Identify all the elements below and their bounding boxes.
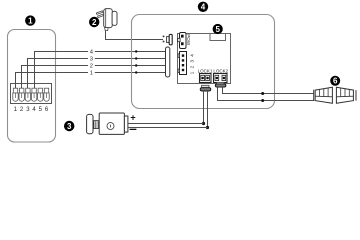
terminal 5 (38, 88, 43, 101)
wire 4: terminal 4 to connector pin 4 (35, 52, 89, 89)
svg-text:LOCK2: LOCK2 (213, 68, 228, 73)
LOCK2 wire to bolt lock top (223, 87, 314, 93)
svg-text:2: 2 (92, 18, 97, 27)
junction dot on bottom bolt wire (261, 99, 264, 102)
svg-text:2: 2 (90, 64, 93, 70)
svg-text:POW: POW (186, 34, 191, 46)
terminal 1 (13, 88, 18, 101)
wire 3: terminal 3 to connector pin 3 (28, 59, 89, 89)
svg-text:+: + (130, 112, 135, 122)
cable bundle plug J1 (166, 47, 170, 77)
wire 1: terminal 1 to connector pin 1 (16, 73, 89, 89)
electric strike lock 3 (87, 113, 128, 134)
svg-text:1: 1 (90, 71, 93, 77)
wire number labels 4 3 2 1 (90, 50, 94, 77)
wire 2: terminal 2 to connector pin 2 (22, 66, 89, 89)
svg-text:3: 3 (67, 122, 72, 131)
LOCK1 connector (200, 74, 212, 83)
electric bolt lock 6 left half (314, 87, 333, 103)
LOCK2 wire to bolt lock bottom (218, 87, 314, 100)
svg-text:6: 6 (333, 77, 338, 86)
terminal 2 (19, 88, 24, 101)
terminal numbers 1-6 (14, 107, 49, 113)
indoor handset unit 1 outline (8, 30, 56, 143)
svg-text:3: 3 (90, 57, 93, 63)
terminal block TB1 (11, 84, 52, 104)
electric bolt lock 6 right half (336, 87, 356, 103)
minus label (130, 129, 137, 130)
LOCK1 plug (200, 85, 211, 91)
+ wire from lock to junction (128, 123, 204, 125)
svg-text:1: 1 (28, 16, 33, 25)
svg-text:1 2 3 4: 1 2 3 4 (189, 53, 194, 74)
junction dot on top bolt wire (261, 92, 264, 95)
terminal 6 (44, 88, 49, 101)
label circle 3 (64, 121, 74, 131)
junction dots where wires enter unit 4 (135, 50, 137, 52)
junction dot - (206, 126, 209, 129)
POW connector (178, 33, 186, 49)
terminal 3 (25, 88, 30, 101)
label circle 1 (25, 15, 35, 25)
LOCK2 connector (214, 74, 228, 83)
power adapter PS1 (96, 9, 117, 31)
label circle 5 (213, 24, 223, 34)
- wire from lock to junction (128, 127, 208, 129)
camera module 5 (210, 34, 226, 41)
terminal 4 (31, 88, 36, 101)
junction dot + (202, 122, 205, 125)
label circle 4 (198, 2, 208, 12)
LOCK1 wire B down to - rail (207, 91, 209, 128)
label circle 6 (330, 76, 340, 86)
svg-text:LOCK1: LOCK1 (198, 68, 213, 73)
LOCK2 plug (215, 82, 226, 87)
adapter cord wire (106, 31, 164, 40)
svg-text:4: 4 (201, 3, 206, 12)
PCB board (178, 34, 231, 84)
LOCK1 wire A down to + rail (203, 91, 205, 124)
svg-text:5: 5 (215, 25, 220, 34)
outdoor unit 4 outline (132, 15, 275, 109)
label circle 2 (89, 17, 99, 27)
power plug P1 (163, 34, 173, 44)
4-pin connector CN1 (178, 52, 186, 75)
